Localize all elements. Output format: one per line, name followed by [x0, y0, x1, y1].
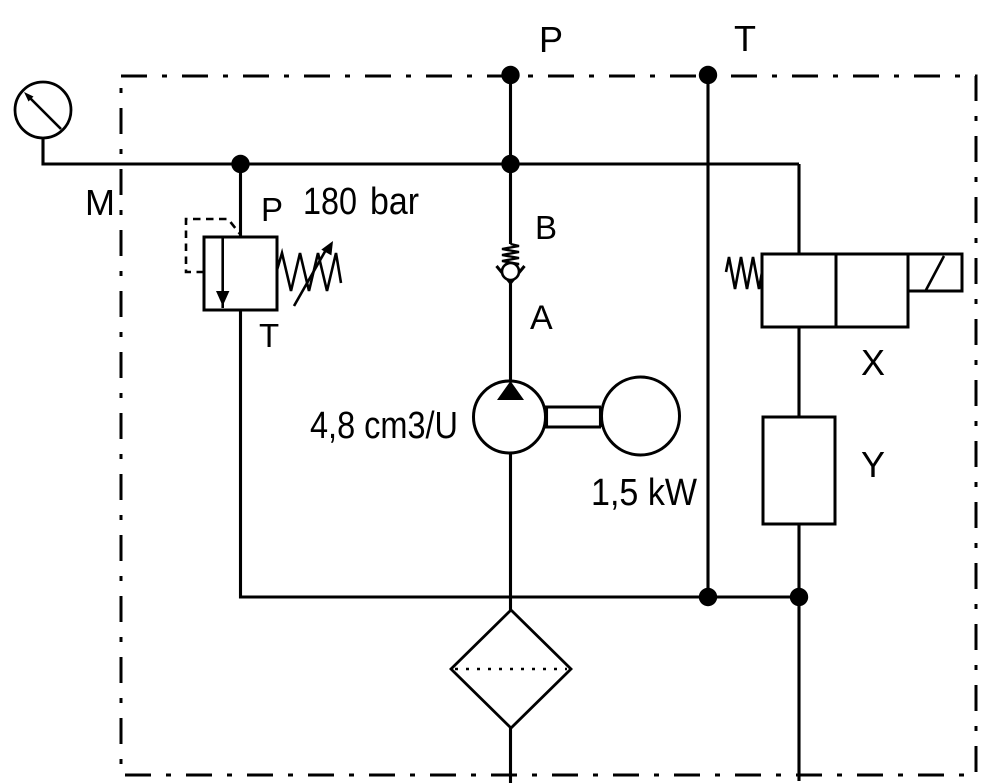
- svg-text:bar: bar: [370, 181, 419, 223]
- svg-text:180: 180: [303, 181, 357, 223]
- svg-text:B: B: [535, 209, 557, 246]
- svg-text:X: X: [861, 342, 885, 383]
- svg-text:P: P: [539, 19, 563, 60]
- svg-text:P: P: [261, 191, 283, 228]
- svg-text:T: T: [259, 317, 279, 354]
- svg-text:4,8 cm3/U: 4,8 cm3/U: [310, 405, 458, 447]
- svg-text:A: A: [530, 299, 553, 337]
- svg-text:1,5 kW: 1,5 kW: [591, 472, 697, 514]
- svg-text:Y: Y: [861, 444, 885, 485]
- svg-text:M: M: [85, 182, 115, 223]
- svg-text:T: T: [734, 18, 756, 59]
